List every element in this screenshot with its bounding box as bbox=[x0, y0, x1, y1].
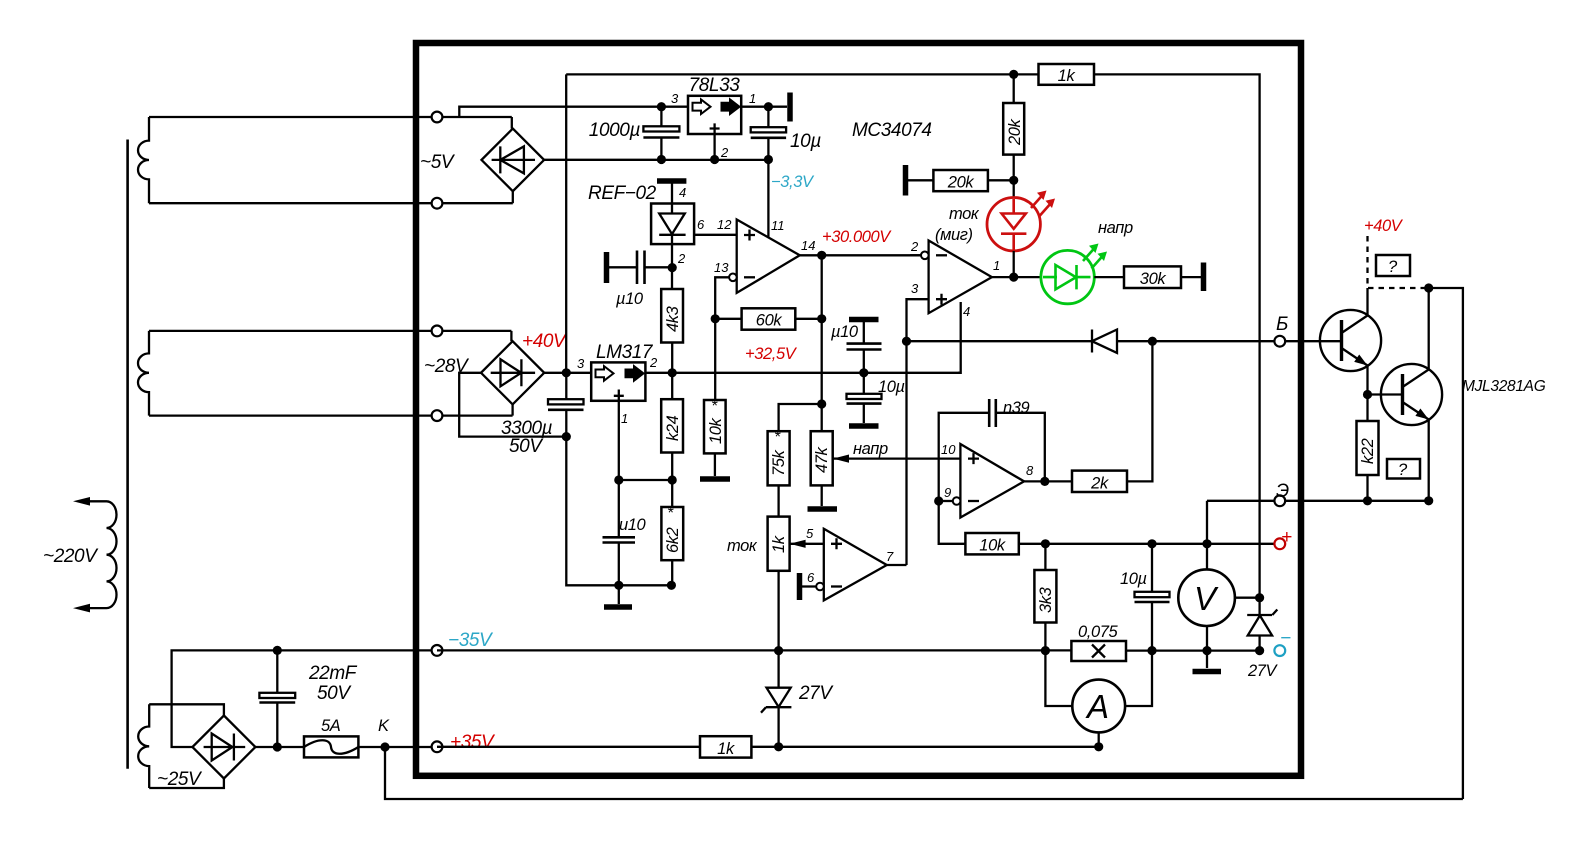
svg-text:*: * bbox=[711, 398, 718, 415]
LED D1 light arrows bbox=[1031, 195, 1043, 209]
capacitor C2 22mF plates bbox=[259, 693, 295, 698]
ground bar under 10k* bbox=[700, 476, 730, 482]
wire REF-02 pin2 lead down bbox=[671, 244, 673, 289]
node 60k left junction bbox=[711, 314, 720, 323]
node LM317 output junction bbox=[668, 368, 677, 377]
wire 75k top lead bbox=[779, 404, 822, 431]
wire 10u top lead bbox=[767, 107, 769, 128]
svg-text:Э: Э bbox=[1276, 481, 1289, 502]
arrow napr into 47k bbox=[833, 455, 849, 463]
wire 3k3 bottom lead bbox=[1044, 623, 1046, 651]
terminal B (base) bbox=[1274, 336, 1285, 347]
wire 3k3 top lead bbox=[1044, 544, 1046, 570]
node 1000u top junction bbox=[657, 102, 666, 111]
node V meter top junction bbox=[1202, 539, 1211, 548]
svg-text:6k2: 6k2 bbox=[664, 527, 682, 553]
wire 20k to LED chain node bbox=[988, 179, 1014, 181]
wire U1A output pin14 bbox=[800, 254, 921, 256]
bridge rectifier B2 ~28V diamond bbox=[481, 341, 544, 404]
wire -35V rail inside bbox=[437, 649, 1260, 651]
wire ammeter right lead bbox=[1125, 651, 1152, 706]
wire U1B pin4 to +32.5 rail bbox=[958, 302, 961, 373]
svg-text:13: 13 bbox=[714, 260, 729, 275]
wire C8 bottom lead bbox=[863, 404, 865, 423]
wire ~25V bottom lead bbox=[149, 778, 224, 789]
ground bar under 47k bbox=[808, 506, 838, 512]
resistor R75k* box (vertical) bbox=[768, 431, 790, 485]
svg-text:3k3: 3k3 bbox=[1037, 586, 1055, 613]
node top rail 20k junction bbox=[1009, 70, 1018, 79]
wire 2k right to B line riser bbox=[1127, 341, 1152, 481]
op-amp U1B triangle bbox=[929, 241, 992, 314]
reference U3 REF-02 box bbox=[651, 204, 694, 245]
wire voltmeter bottom lead bbox=[1206, 626, 1208, 668]
svg-text:?: ? bbox=[1398, 461, 1408, 479]
terminal ~5V top bbox=[432, 112, 443, 123]
svg-text:+30.000V: +30.000V bbox=[822, 228, 892, 246]
wire ammeter left lead bbox=[1045, 651, 1072, 706]
node k24 bottom junction bbox=[668, 475, 677, 484]
wire n39 feedback loop left side bbox=[939, 413, 990, 501]
svg-text:напр: напр bbox=[1098, 219, 1133, 237]
resistor R60k box bbox=[742, 308, 796, 329]
svg-text:75k: 75k bbox=[770, 449, 788, 476]
Q1 collector bbox=[1342, 288, 1368, 333]
wire pin14 down to 60k right bbox=[821, 255, 823, 318]
svg-text:12: 12 bbox=[717, 217, 732, 232]
node Q2 collector junction bbox=[1424, 283, 1433, 292]
terminal ~28V top bbox=[432, 326, 443, 337]
wire pin9 to junction bbox=[939, 500, 953, 502]
wire 1000u bottom lead bbox=[660, 138, 662, 160]
wire 60k right down to 75k/47k node bbox=[821, 319, 823, 404]
U1D minus sign bbox=[831, 585, 842, 587]
node Q1 emitter junction bbox=[1363, 390, 1372, 399]
diode inside B3 (pointing right) bbox=[204, 734, 246, 761]
node 10u right top junction bbox=[1147, 539, 1156, 548]
svg-text:n39: n39 bbox=[1003, 399, 1030, 417]
wire dashed +40V feed bbox=[1368, 236, 1429, 288]
U1A plus sign bbox=[744, 230, 755, 241]
terminal -35V bbox=[432, 645, 443, 656]
wire B2 bottom corner to ~28V bottom terminal bbox=[511, 404, 513, 415]
winding ~25V secondary bbox=[138, 704, 149, 788]
LM317 input arrow (outline) bbox=[596, 366, 614, 381]
zener D4 27V (pointing down) bbox=[761, 651, 791, 747]
wire collector node to right riser bbox=[1429, 288, 1463, 799]
box ?2 bbox=[1387, 459, 1420, 479]
wire 22mF bottom lead bbox=[276, 703, 278, 748]
svg-text:10µ: 10µ bbox=[878, 378, 905, 396]
svg-text:10: 10 bbox=[941, 442, 956, 457]
capacitor C4 10u plates bbox=[751, 127, 786, 132]
svg-text:(миг): (миг) bbox=[935, 226, 973, 244]
svg-text:6: 6 bbox=[807, 570, 815, 585]
wire k22 bottom lead bbox=[1366, 475, 1368, 501]
svg-text:3: 3 bbox=[671, 91, 679, 106]
node ammeter bottom junction bbox=[1094, 742, 1103, 751]
svg-text:27V: 27V bbox=[798, 683, 834, 704]
wire 20k top lead bbox=[1013, 74, 1015, 103]
node C10 bottom junction bbox=[1147, 646, 1156, 655]
U1C inverting input circle pin9 bbox=[953, 497, 961, 505]
wire voltmeter top lead bbox=[1206, 544, 1208, 570]
wire pin13 node down to 10k* bbox=[714, 319, 716, 400]
wire U1B output to node bbox=[992, 276, 1041, 278]
svg-text:20k: 20k bbox=[1006, 118, 1024, 146]
svg-text:−3,3V: −3,3V bbox=[771, 173, 815, 191]
wire 60k left lead bbox=[715, 318, 741, 320]
wire C7 top lead bbox=[863, 322, 865, 344]
svg-text:µ10: µ10 bbox=[615, 290, 644, 308]
wire B1 top corner to ~5V top terminal bbox=[511, 117, 513, 129]
bridge rectifier B1 ~5V diamond bbox=[482, 129, 545, 192]
wire E line external bbox=[1285, 500, 1429, 502]
svg-text:78L33: 78L33 bbox=[689, 75, 741, 96]
svg-text:3: 3 bbox=[577, 356, 585, 371]
wire REF-02 pin4 lead bbox=[671, 184, 673, 204]
node 75k/47k top junction bbox=[817, 399, 826, 408]
svg-text:+35V: +35V bbox=[450, 732, 496, 753]
svg-text:22mF: 22mF bbox=[308, 663, 358, 684]
node u10 bottom junction bbox=[614, 581, 623, 590]
capacitor C3 1000u plates bbox=[643, 126, 679, 131]
wire ammeter bottom lead to +35 rail bbox=[1098, 732, 1100, 746]
diode inside B2 (pointing right) bbox=[491, 359, 535, 386]
wire C10 bottom lead bbox=[1151, 602, 1153, 650]
wire U1B pin3 to comparator node bbox=[907, 299, 929, 341]
wire 47k top lead bbox=[821, 404, 823, 431]
wire C8 top lead bbox=[863, 373, 865, 394]
LM317 output arrow (filled) bbox=[626, 366, 644, 381]
node 3k3 top junction bbox=[1041, 539, 1050, 548]
REF-02 internal zener symbol bbox=[659, 204, 685, 245]
capacitor C5 u10 plates (horizontal) bbox=[636, 251, 639, 285]
svg-text:2: 2 bbox=[720, 145, 729, 160]
ground bar at U1D pin6 bbox=[797, 573, 803, 600]
svg-text:k22: k22 bbox=[1359, 438, 1377, 464]
node pin3/diode junction bbox=[902, 337, 911, 346]
arrow primary bottom bbox=[73, 604, 90, 613]
node ground rail at 1000u bbox=[657, 155, 666, 164]
svg-text:ток: ток bbox=[727, 537, 758, 555]
svg-text:*: * bbox=[667, 505, 674, 522]
ground bar at C8 bottom bbox=[849, 423, 879, 429]
LED D2 light arrows bbox=[1083, 248, 1095, 262]
wire U1D output pin7 bbox=[887, 564, 907, 566]
wire 3300u top lead bbox=[565, 373, 567, 399]
svg-text:MC34074: MC34074 bbox=[852, 120, 932, 141]
diode inside B1 (pointing left) bbox=[492, 146, 535, 173]
wire ~5V bottom lead bbox=[149, 202, 513, 204]
arrow tok into 1k bbox=[790, 540, 806, 548]
terminal ~28V bottom bbox=[432, 410, 443, 421]
wire -3.3V line down to op-amp pin 11 bbox=[767, 160, 769, 238]
wire diode to B terminal bbox=[1117, 340, 1280, 342]
wire U1A pin13 to 60k left bbox=[715, 277, 729, 319]
wire 78L33 pin2 lead bbox=[713, 134, 715, 160]
ground bar at 78L33 output bbox=[787, 93, 793, 122]
label 4k3 pin2 wire: 4k3 resistor box (vertical) bbox=[661, 289, 683, 343]
svg-text:10µ: 10µ bbox=[790, 131, 821, 152]
svg-text:K: K bbox=[378, 717, 390, 735]
svg-text:1k: 1k bbox=[1058, 67, 1076, 85]
wire LM317 pin1 down bbox=[618, 401, 620, 480]
wire u10 left lead bbox=[609, 266, 637, 268]
wire E riser to +out rail bbox=[1206, 501, 1208, 544]
terminal E (emitter) bbox=[1274, 495, 1285, 506]
svg-text:2: 2 bbox=[677, 251, 686, 266]
svg-text:4: 4 bbox=[679, 185, 686, 200]
node voltmeter bottom on -35 rail bbox=[1202, 646, 1211, 655]
wire +30V line pin14 to U1B pin2 bbox=[910, 254, 921, 256]
ground bar right of 30k bbox=[1201, 263, 1207, 292]
wire jog from ~5V top to 78L33 input bbox=[459, 107, 661, 117]
wire B1 bottom corner to ~5V bottom terminal bbox=[512, 191, 514, 203]
wire 78L33 output to ground bar bbox=[741, 106, 787, 108]
node pin9 junction bbox=[934, 496, 943, 505]
wire B terminal through border to Q1 base bbox=[1285, 340, 1342, 342]
LM317 adj pin symbol bbox=[614, 390, 624, 401]
resistor R1k top box bbox=[1039, 64, 1095, 85]
wire B (base) line from pin3 node to diode bbox=[907, 340, 1093, 342]
capacitor C8 10u plates bbox=[847, 394, 882, 399]
svg-text:4k3: 4k3 bbox=[664, 305, 682, 332]
node pin1 junction bbox=[1009, 273, 1018, 282]
wire C7 bottom lead bbox=[863, 350, 865, 373]
shunt R0,075 box bbox=[1071, 641, 1126, 661]
wire bar to 20k left resistor bbox=[908, 179, 933, 181]
svg-text:47k: 47k bbox=[813, 446, 831, 473]
ground bar star ground bbox=[604, 604, 632, 610]
wire REF-02 pin6 to op-amp pin 12 bbox=[694, 234, 737, 236]
diode D3 on base line (pointing left) bbox=[1092, 330, 1117, 353]
wire 22mF top lead bbox=[276, 650, 278, 692]
wire C10 top lead bbox=[1151, 544, 1153, 592]
U1D inverting input circle pin6 bbox=[816, 583, 824, 591]
wire tok arrow to U1D pin5 bbox=[802, 543, 824, 545]
svg-text:5: 5 bbox=[806, 526, 814, 541]
wire 10u bottom lead bbox=[767, 138, 769, 160]
resistor Rk22 box (vertical) bbox=[1357, 421, 1379, 475]
Q1 base bar bbox=[1340, 320, 1343, 361]
node D5 bottom on -35 rail bbox=[1255, 646, 1264, 655]
wire u10 top lead bbox=[618, 480, 620, 537]
svg-text:1: 1 bbox=[993, 258, 1000, 273]
svg-text:+40V: +40V bbox=[522, 331, 568, 352]
resistor R20k chain box (vertical) bbox=[1003, 103, 1024, 155]
node 22mF bottom junction bbox=[273, 742, 282, 751]
svg-text:0,075: 0,075 bbox=[1078, 623, 1119, 641]
op-amp U1D triangle bbox=[824, 529, 887, 601]
LED D1 red circle bbox=[987, 198, 1040, 251]
svg-text:60k: 60k bbox=[756, 312, 783, 330]
wire 78L33 input from jog bbox=[661, 106, 688, 108]
U1A minus sign bbox=[744, 276, 755, 278]
wire LM317 output to +32.5 rail bbox=[645, 372, 960, 374]
svg-text:10k: 10k bbox=[979, 537, 1006, 555]
node k22 bottom junction bbox=[1363, 496, 1372, 505]
wire 10k left lead bbox=[939, 501, 966, 544]
node REF-02 pin2 junction bbox=[668, 263, 677, 272]
wire ground rail under 78L33 bbox=[544, 159, 768, 161]
terminal +out (red) bbox=[1274, 538, 1285, 549]
bridge rectifier B3 ~25V diamond bbox=[192, 716, 255, 779]
svg-text:+: + bbox=[1281, 527, 1292, 548]
svg-text:27V: 27V bbox=[1247, 662, 1279, 680]
capacitor C9 n39 plates bbox=[988, 399, 991, 427]
wire 30k to ground bar bbox=[1181, 276, 1201, 278]
svg-text:4: 4 bbox=[963, 304, 970, 319]
svg-text:*: * bbox=[774, 429, 781, 446]
node ground rail at 10u bbox=[764, 155, 773, 164]
wire E (emitter) line inside bbox=[1207, 500, 1280, 502]
svg-text:+32,5V: +32,5V bbox=[745, 345, 798, 363]
wire 20k bottom lead bbox=[1013, 155, 1015, 198]
terminal +35V bbox=[432, 741, 443, 752]
svg-text:MJL3281AG: MJL3281AG bbox=[1462, 378, 1546, 395]
LED D2 green circle bbox=[1041, 250, 1094, 303]
svg-text:14: 14 bbox=[801, 238, 815, 253]
wire fuse to K node bbox=[358, 746, 437, 748]
capacitor C7 u10 plates bbox=[847, 342, 882, 345]
shunt X mark bbox=[1092, 645, 1105, 658]
transformer core bbox=[126, 140, 129, 769]
resistor R30k box bbox=[1124, 266, 1181, 288]
wire u10 right lead bbox=[645, 266, 673, 268]
wire +40V rail vertical to top rail bbox=[565, 74, 567, 372]
svg-text:50V: 50V bbox=[317, 683, 352, 704]
svg-text:1: 1 bbox=[621, 411, 628, 426]
wire 4k3 bottom lead bbox=[671, 343, 673, 400]
svg-text:50V: 50V bbox=[509, 436, 544, 457]
svg-text:u10: u10 bbox=[619, 516, 647, 534]
svg-text:2: 2 bbox=[910, 239, 919, 254]
winding ~220V primary bbox=[107, 501, 117, 608]
node 22mF top junction bbox=[273, 646, 282, 655]
op-amp U1C triangle bbox=[960, 444, 1024, 518]
svg-text:11: 11 bbox=[771, 218, 785, 233]
svg-text:µ10: µ10 bbox=[830, 323, 859, 341]
svg-text:1: 1 bbox=[749, 91, 756, 106]
Q1 emitter arrow bbox=[1354, 355, 1367, 366]
wire primary bottom lead bbox=[80, 607, 107, 609]
U1B minus sign bbox=[936, 254, 947, 256]
U1C plus sign bbox=[968, 453, 979, 464]
resistor R47k box (vertical) bbox=[811, 431, 833, 485]
wire 10k* bottom lead to ground bbox=[714, 453, 716, 476]
regulator U4 LM317 box bbox=[591, 362, 645, 400]
svg-text:7: 7 bbox=[886, 549, 894, 564]
node pin14 junction bbox=[817, 251, 826, 260]
wire B2 top corner to ~28V top terminal bbox=[510, 331, 512, 341]
wire n39 feedback loop right side bbox=[996, 413, 1045, 482]
resistor R10k box bbox=[965, 533, 1018, 554]
U1B inverting input circle pin2 bbox=[921, 252, 929, 260]
U1D plus sign bbox=[831, 538, 842, 549]
wire primary top lead bbox=[80, 500, 107, 502]
resistor R6k2* box (vertical) bbox=[661, 507, 683, 560]
node K junction bbox=[380, 742, 389, 751]
svg-text:?: ? bbox=[1388, 258, 1398, 276]
wire B2 left corner negative loop to 3300u bottom bbox=[459, 373, 566, 437]
ground bar at u10 cap left bbox=[604, 252, 610, 283]
fuse wave bbox=[304, 740, 358, 754]
regulator U2 78L33 box bbox=[688, 96, 741, 134]
node 10u top junction bbox=[764, 102, 773, 111]
wire top +40V rail horizontal bbox=[566, 73, 1038, 75]
wire ~25V top lead bbox=[149, 704, 224, 716]
svg-text:1000µ: 1000µ bbox=[589, 120, 641, 141]
wire k24 bottom lead bbox=[671, 453, 673, 508]
wire B3 right corner to fuse bbox=[255, 746, 304, 748]
wire U1D pin6 to ground bar bbox=[802, 585, 816, 587]
wire ~5V top lead bbox=[149, 116, 512, 118]
svg-text:+40V: +40V bbox=[1364, 217, 1404, 235]
node 1k/zener junction on -35 rail bbox=[774, 646, 783, 655]
voltmeter PV1 circle bbox=[1178, 569, 1235, 626]
Q2 emitter arrow bbox=[1415, 409, 1428, 420]
Q2 base lead from Q1 emitter node bbox=[1368, 393, 1403, 395]
wire 60k right lead bbox=[795, 318, 821, 320]
node 60k right junction bbox=[817, 314, 826, 323]
ground bar at uA10 cap top bbox=[849, 317, 879, 323]
78L33 common pin symbol bbox=[710, 123, 720, 134]
wire k24 junction to LM317 pin1 bbox=[619, 479, 672, 481]
wire 47k bottom lead bbox=[821, 485, 823, 506]
wire U1D output rise to pin3 node bbox=[905, 341, 907, 565]
winding ~5V secondary bbox=[138, 117, 149, 203]
svg-text:−35V: −35V bbox=[448, 630, 494, 651]
U1B plus sign bbox=[936, 294, 947, 305]
Q2 collector bbox=[1403, 288, 1429, 387]
svg-text:10µ: 10µ bbox=[1120, 570, 1147, 588]
capacitor C6 u10 plates bbox=[603, 536, 636, 539]
node pin1/k24 wire junction bbox=[614, 475, 623, 484]
wire B1 right corner to ground rail bbox=[544, 159, 661, 161]
svg-text:REF−02: REF−02 bbox=[588, 183, 657, 204]
wire 1k to right vertical bbox=[1094, 74, 1260, 597]
node 2k riser junction on B line bbox=[1148, 337, 1157, 346]
svg-text:Б: Б bbox=[1276, 314, 1288, 335]
winding ~28V secondary bbox=[138, 331, 149, 416]
svg-text:9: 9 bbox=[944, 485, 951, 500]
wire 75k bottom to 1k top bbox=[777, 485, 779, 516]
terminal -out (cyan) bbox=[1274, 645, 1285, 656]
svg-text:~25V: ~25V bbox=[157, 769, 203, 790]
svg-text:V: V bbox=[1194, 580, 1219, 617]
node zener bottom on +35 rail bbox=[774, 742, 783, 751]
svg-text:−: − bbox=[1280, 628, 1291, 649]
resistor R1k tok box (vertical) bbox=[768, 517, 790, 571]
resistor R1k bottom box bbox=[700, 736, 751, 757]
resistor R2k box bbox=[1072, 471, 1127, 492]
wire 1k bottom lead to -35 rail bbox=[777, 571, 779, 651]
ground bar at left 20k bbox=[903, 165, 909, 196]
node +32.5 rail at C7/C8 bbox=[859, 368, 868, 377]
svg-text:1k: 1k bbox=[717, 740, 735, 758]
svg-text:~220V: ~220V bbox=[43, 546, 99, 567]
svg-text:5A: 5A bbox=[321, 717, 341, 735]
fuse F1 5A box bbox=[304, 736, 358, 757]
LED D1 red diode symbol bbox=[1001, 199, 1026, 250]
svg-text:10k: 10k bbox=[707, 417, 725, 444]
wire ~28V bottom lead bbox=[149, 414, 513, 416]
wire +35V rail inside bbox=[437, 746, 1099, 748]
svg-text:k24: k24 bbox=[664, 415, 682, 441]
svg-text:LM317: LM317 bbox=[596, 342, 654, 363]
svg-text:1k: 1k bbox=[770, 535, 788, 553]
